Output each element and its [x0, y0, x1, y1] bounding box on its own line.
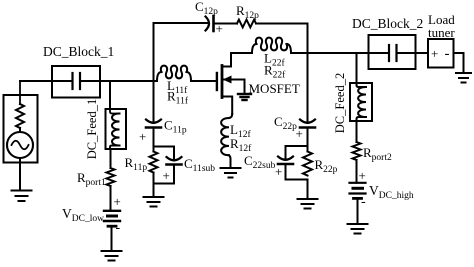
label Load tuner	[428, 12, 455, 40]
ground under V_DC_high	[348, 224, 368, 234]
label L_12f	[230, 122, 251, 140]
svg-text:DC_Feed_2: DC_Feed_2	[333, 73, 347, 133]
inductor L_22f on drain bus	[252, 38, 291, 53]
wire output bus y=53	[291, 52, 369, 54]
svg-text:VDC_low: VDC_low	[62, 206, 104, 224]
label - of V_DC_high	[361, 195, 366, 210]
ground at MOSFET bulk	[238, 94, 251, 100]
battery V_DC_low	[104, 211, 120, 251]
label + of C_12p	[216, 21, 223, 36]
label DC_Block_2	[352, 16, 423, 31]
capacitor C_12p	[206, 16, 238, 31]
label + of C_22p	[296, 126, 303, 141]
label + of C_11p	[139, 129, 146, 144]
DC_Feed_1 boxed inductor	[106, 109, 127, 149]
label L_11f	[167, 78, 188, 96]
svg-text:+: +	[216, 21, 223, 36]
label C_12p	[195, 0, 218, 17]
ground right of Load tuner	[456, 73, 471, 83]
label - of V_DC_low	[116, 221, 121, 236]
label V_DC_high	[369, 183, 414, 201]
label + - inside Load tuner	[431, 46, 450, 62]
wire gate bus from DC_Block_1 to L_11f	[100, 80, 157, 82]
ground under V_DC_low	[102, 251, 122, 261]
svg-text:Rport1: Rport1	[77, 170, 106, 188]
Load tuner box	[428, 39, 454, 68]
svg-text:R11p: R11p	[125, 155, 148, 173]
wire right branch down to C_11sub	[173, 147, 175, 161]
svg-text:MOSFET: MOSFET	[249, 81, 300, 96]
wire R_port1 to V_DC_low	[110, 186, 112, 211]
wire C_22p branch down from output bus	[307, 53, 309, 123]
wire C_11p branch from gate bus down	[153, 81, 155, 123]
label + of C_22sub	[275, 164, 282, 179]
DC_Block_2 box with series capacitor	[369, 35, 416, 69]
label + of V_DC_high	[359, 168, 366, 183]
wire Load tuner to ground	[454, 53, 464, 73]
svg-text:+: +	[139, 129, 146, 144]
svg-text:+: +	[296, 126, 303, 141]
svg-text:C22p: C22p	[274, 114, 297, 132]
svg-text:C11sub: C11sub	[184, 156, 215, 174]
svg-text:Rport2: Rport2	[363, 145, 392, 163]
ground under R_22p	[298, 199, 318, 209]
wire drop to DC_Feed_1	[109, 81, 111, 109]
label + of C_11sub	[163, 168, 170, 183]
svg-text:R22p: R22p	[315, 157, 338, 175]
battery V_DC_high	[350, 183, 366, 224]
label R_22f	[264, 63, 286, 81]
svg-text:tuner: tuner	[428, 25, 455, 40]
label + of V_DC_low	[114, 194, 121, 209]
svg-text:+: +	[275, 164, 282, 179]
svg-text:C12p: C12p	[195, 0, 218, 17]
wire R_12p to right feedback corner	[257, 24, 308, 54]
label C_11sub	[184, 156, 215, 174]
resistor R_port1	[107, 168, 115, 186]
node bar bottom of R_11p / C_11sub	[154, 173, 175, 184]
wire drain to L_22f	[231, 52, 252, 54]
wire left branch down to C_22sub	[285, 146, 287, 160]
wire feedback top to C_12p	[154, 22, 210, 24]
capacitor C_11sub	[167, 157, 182, 184]
svg-text:+: +	[163, 168, 170, 183]
capacitor C_22p	[300, 120, 315, 147]
label R_22p	[315, 157, 338, 175]
label C_11p	[164, 118, 187, 136]
wire DC_Feed_1 to R_port1	[110, 149, 112, 168]
DC_Feed_2 boxed inductor	[350, 83, 372, 121]
svg-text:-: -	[445, 46, 450, 62]
label R_11f	[167, 89, 189, 107]
label L_22f	[264, 51, 285, 69]
label R_11p	[125, 155, 148, 173]
svg-text:DC_Feed_1: DC_Feed_1	[85, 99, 99, 159]
label V_DC_low	[62, 206, 104, 224]
wire DC_Feed_2 to R_port2	[356, 121, 358, 142]
label DC_Feed_1 (rotated)	[85, 99, 99, 159]
label R_12p	[236, 3, 259, 21]
wire R_port2 to V_DC_high	[356, 160, 358, 183]
inductor L_12f	[221, 114, 232, 168]
svg-text:C22sub: C22sub	[244, 153, 276, 171]
wire drop to DC_Feed_2	[356, 53, 358, 83]
ground under R_11p / C_11sub	[144, 197, 164, 207]
ground under source	[12, 191, 32, 202]
inductor L_11f on gate bus	[157, 66, 191, 81]
svg-text:DC_Block_1: DC_Block_1	[43, 44, 114, 59]
svg-text:+: +	[359, 168, 366, 183]
wire DC_Block_2 to Load tuner	[416, 52, 429, 54]
DC_Block_1 box with series capacitor	[52, 66, 100, 98]
svg-text:R12p: R12p	[236, 3, 259, 21]
label C_22sub	[244, 153, 276, 171]
svg-text:-: -	[116, 221, 121, 236]
node bar bottom of parallel pair	[286, 179, 308, 181]
label MOSFET	[249, 81, 300, 96]
resistor R_port2	[353, 142, 361, 160]
resistor R_22p	[303, 146, 312, 176]
MOSFET Q1	[217, 53, 245, 114]
label DC_Feed_2 (rotated)	[333, 73, 347, 133]
feedback vertical line x=153.5	[153, 23, 155, 81]
wire to ground	[153, 184, 155, 198]
node bar top of R_11p / C_11sub parallel	[154, 146, 175, 148]
wire input bus y=81 from source to DC_Block_1	[20, 80, 52, 82]
svg-text:C11p: C11p	[164, 118, 187, 136]
node bar top of C_22sub / R_22p parallel	[286, 145, 308, 147]
label DC_Block_1	[43, 44, 114, 59]
svg-text:DC_Block_2: DC_Block_2	[352, 16, 423, 31]
svg-text:-: -	[361, 195, 366, 210]
label C_22p	[274, 114, 297, 132]
ground under L_12f	[221, 168, 241, 178]
source port P1 box with resistor and sine generator	[4, 81, 38, 191]
label R_port2	[363, 145, 392, 163]
svg-text:+: +	[114, 194, 121, 209]
svg-text:+: +	[431, 46, 438, 61]
wire L_11f to MOSFET gate	[191, 80, 216, 82]
svg-text:VDC_high: VDC_high	[369, 183, 414, 201]
label R_port1	[77, 170, 106, 188]
resistor R_12p	[237, 20, 256, 28]
capacitor C_22sub	[278, 157, 293, 180]
capacitor C_11p	[146, 120, 161, 147]
label R_12f	[230, 136, 252, 154]
resistor R_11p	[150, 147, 158, 173]
wire to ground	[307, 180, 309, 200]
